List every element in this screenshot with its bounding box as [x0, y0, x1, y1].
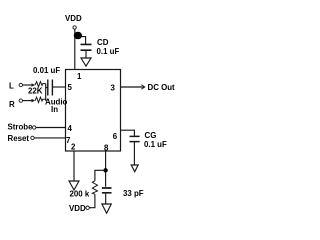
R input terminal — [19, 99, 22, 102]
label Strobe — [8, 123, 34, 132]
svg-text:DC Out: DC Out — [148, 83, 176, 92]
svg-text:1: 1 — [77, 72, 82, 81]
arrowhead R — [32, 99, 36, 103]
value 0.1 uF (CG) — [144, 140, 167, 149]
capacitor 33 pF — [102, 188, 112, 193]
svg-text:R: R — [9, 100, 15, 109]
wire pin 8 down — [105, 151, 107, 187]
svg-text:In: In — [51, 105, 58, 114]
label CD — [97, 38, 109, 47]
ground (below 33 pF) — [102, 204, 111, 213]
capacitor CG — [130, 136, 140, 141]
svg-text:Reset: Reset — [8, 134, 30, 143]
pin 4 label — [68, 124, 73, 133]
wire L input — [23, 84, 32, 86]
svg-text:0.01 uF: 0.01 uF — [33, 66, 60, 75]
wire pin 3 to DC Out — [121, 86, 145, 88]
wire CG to ground — [133, 142, 135, 165]
pin 1 label — [77, 72, 82, 81]
svg-text:200 k: 200 k — [70, 190, 90, 199]
svg-text:L: L — [9, 82, 14, 91]
resistor 200k — [92, 181, 97, 194]
svg-text:6: 6 — [113, 132, 118, 141]
pin 5 label — [68, 83, 73, 92]
VDD terminal (top) — [73, 26, 76, 29]
wire 33pF to ground — [105, 194, 107, 204]
pin 8 label — [104, 144, 109, 153]
svg-text:Strobe: Strobe — [8, 123, 34, 132]
svg-text:4: 4 — [68, 124, 73, 133]
svg-text:0.1 uF: 0.1 uF — [144, 140, 167, 149]
label DC Out — [148, 83, 176, 92]
wire pin 6 to CG — [121, 130, 135, 136]
svg-text:22K: 22K — [28, 87, 43, 96]
svg-text:VDD: VDD — [69, 204, 86, 213]
wire CD to ground — [85, 51, 87, 58]
wire Reset to pin 7 — [34, 137, 65, 139]
pin 7 label — [66, 136, 71, 145]
pin 2 label — [71, 143, 76, 152]
ground (below CG) — [131, 165, 138, 172]
svg-text:5: 5 — [68, 83, 73, 92]
node L label — [9, 82, 14, 91]
VDD label (top) — [65, 14, 82, 23]
value 0.01 uF (input cap) — [33, 66, 60, 75]
value 0.1 uF (CD) — [97, 47, 120, 56]
junction dot VDD node — [74, 32, 82, 40]
wire VDD terminal to pin 1 — [74, 29, 76, 69]
capacitor 0.01 uF — [48, 80, 53, 96]
arrowhead L — [32, 83, 36, 87]
ground (below CD) — [81, 58, 91, 66]
IC U1 body — [66, 70, 121, 152]
arrowhead DC Out — [141, 85, 145, 90]
svg-text:8: 8 — [104, 144, 109, 153]
potentiometer 22K (L wiper zigzag) — [35, 82, 46, 87]
label Audio In — [45, 98, 68, 115]
wire pin 2 down — [73, 151, 75, 181]
pin 3 label — [111, 84, 116, 93]
pin 6 label — [113, 132, 118, 141]
svg-text:2: 2 — [71, 143, 76, 152]
label CG — [145, 131, 157, 140]
VDD terminal (bottom) — [86, 206, 89, 209]
VDD label (bottom) — [69, 204, 86, 213]
label 200 k — [70, 190, 90, 199]
potentiometer 22K (R wiper zigzag) — [35, 97, 46, 102]
wire VDD node to capacitor CD — [79, 37, 86, 44]
wire node to resistor 200k — [95, 170, 106, 181]
capacitor CD — [81, 44, 92, 50]
wire cap to pin 5 — [52, 86, 65, 88]
node R label — [9, 100, 15, 109]
Reset terminal — [31, 136, 34, 139]
L input terminal — [19, 83, 22, 86]
svg-text:VDD: VDD — [65, 14, 82, 23]
value 33 pF — [123, 189, 144, 198]
svg-text:CG: CG — [145, 131, 157, 140]
junction dot pin 8 node — [103, 168, 107, 172]
svg-text:3: 3 — [111, 84, 116, 93]
wire resistor to VDD terminal — [89, 194, 95, 208]
Strobe terminal — [33, 126, 36, 129]
svg-text:33 pF: 33 pF — [123, 189, 144, 198]
wire Strobe to pin 4 — [36, 127, 66, 129]
svg-text:0.1 uF: 0.1 uF — [97, 47, 120, 56]
label Reset — [8, 134, 30, 143]
wire audio bus — [46, 84, 48, 101]
label 22K — [28, 87, 43, 96]
svg-text:CD: CD — [97, 38, 109, 47]
ground (below pin 2) — [69, 181, 79, 190]
wire R input — [23, 100, 32, 102]
